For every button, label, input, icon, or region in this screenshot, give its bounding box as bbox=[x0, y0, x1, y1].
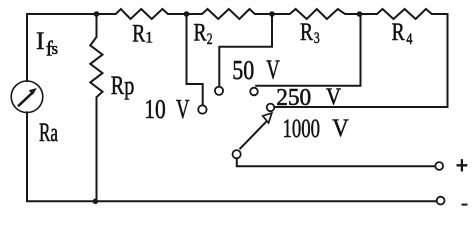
svg-text:V: V bbox=[176, 93, 190, 124]
svg-text:s: s bbox=[52, 39, 58, 58]
svg-text:V: V bbox=[332, 113, 349, 142]
svg-text:R: R bbox=[132, 21, 145, 48]
svg-text:Rp: Rp bbox=[111, 71, 135, 100]
svg-text:10: 10 bbox=[144, 93, 166, 124]
svg-text:2: 2 bbox=[207, 31, 213, 48]
svg-text:V: V bbox=[266, 54, 280, 85]
svg-text:I: I bbox=[36, 26, 45, 55]
svg-text:4: 4 bbox=[406, 31, 412, 48]
svg-text:50: 50 bbox=[232, 54, 254, 85]
svg-text:R: R bbox=[194, 20, 207, 47]
svg-text:3: 3 bbox=[314, 30, 320, 47]
svg-text:Ra: Ra bbox=[39, 118, 58, 147]
svg-text:V: V bbox=[326, 83, 341, 110]
svg-text:R: R bbox=[300, 19, 313, 46]
svg-text:R: R bbox=[392, 19, 405, 46]
svg-text:1: 1 bbox=[145, 30, 153, 47]
svg-text:1000: 1000 bbox=[283, 114, 321, 143]
svg-text:250: 250 bbox=[276, 84, 311, 111]
